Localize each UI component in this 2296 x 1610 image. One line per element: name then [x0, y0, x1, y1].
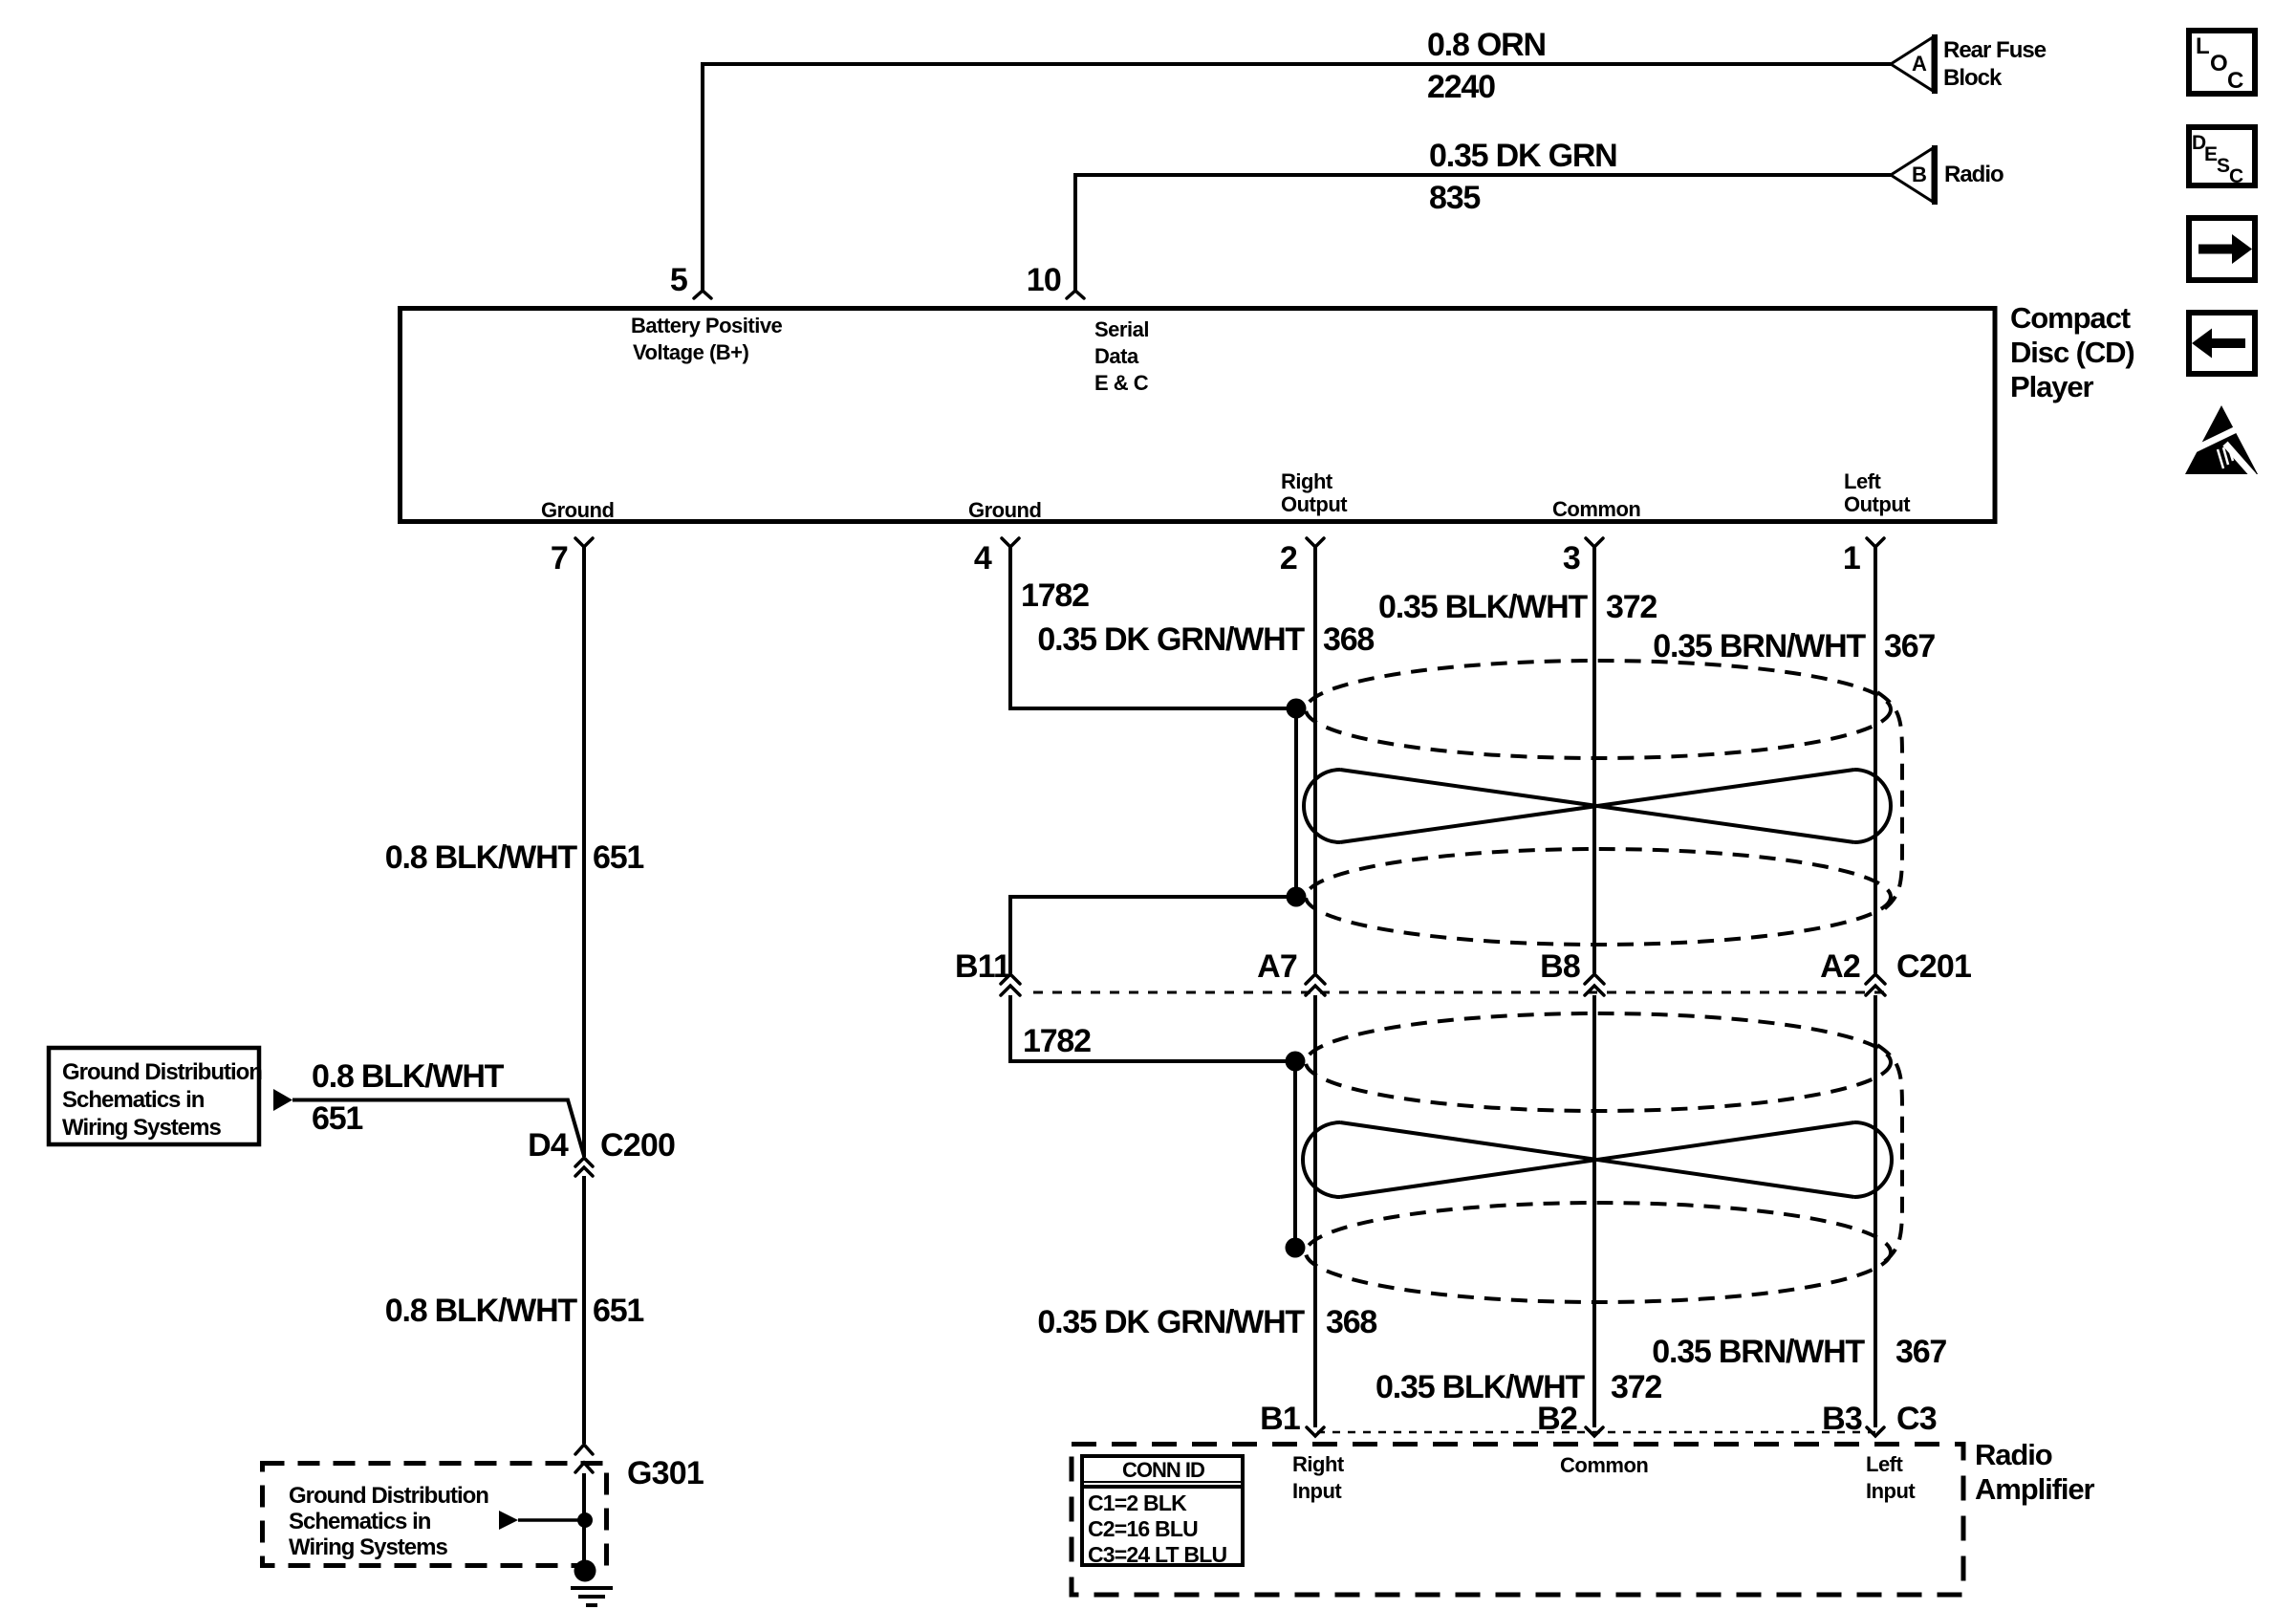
svg-text:Ground: Ground [541, 498, 614, 522]
svg-text:Radio: Radio [1944, 162, 2004, 187]
svg-text:Wiring Systems: Wiring Systems [289, 1534, 447, 1560]
svg-text:Output: Output [1844, 492, 1911, 516]
svg-text:B2: B2 [1537, 1401, 1577, 1437]
svg-text:0.35 BRN/WHT: 0.35 BRN/WHT [1653, 628, 1866, 664]
svg-text:Radio: Radio [1975, 1438, 2052, 1471]
svg-text:0.35 DK GRN/WHT: 0.35 DK GRN/WHT [1037, 1304, 1305, 1340]
svg-text:C3: C3 [1896, 1401, 1937, 1437]
svg-text:0.35 BRN/WHT: 0.35 BRN/WHT [1652, 1334, 1865, 1370]
svg-text:Data: Data [1094, 344, 1139, 368]
svg-text:Right: Right [1281, 469, 1333, 493]
svg-text:CONN ID: CONN ID [1122, 1458, 1204, 1482]
svg-text:Compact: Compact [2010, 301, 2131, 335]
svg-text:0.35 DK GRN: 0.35 DK GRN [1429, 138, 1617, 174]
svg-text:0.8 ORN: 0.8 ORN [1427, 27, 1546, 63]
svg-text:A: A [1912, 52, 1927, 76]
svg-text:Schematics in: Schematics in [62, 1087, 205, 1113]
svg-text:B11: B11 [955, 948, 1010, 985]
svg-text:G301: G301 [627, 1455, 704, 1491]
svg-text:O: O [2210, 51, 2227, 76]
svg-text:5: 5 [670, 262, 687, 298]
svg-text:Ground: Ground [968, 498, 1041, 522]
svg-text:Right: Right [1292, 1452, 1345, 1476]
svg-text:Wiring Systems: Wiring Systems [62, 1115, 221, 1141]
svg-text:2: 2 [1280, 540, 1297, 577]
svg-text:10: 10 [1027, 262, 1061, 298]
svg-text:368: 368 [1326, 1304, 1376, 1340]
svg-text:1: 1 [1843, 540, 1860, 577]
svg-text:B: B [1912, 163, 1926, 186]
svg-text:B3: B3 [1822, 1401, 1862, 1437]
svg-text:Input: Input [1292, 1479, 1342, 1503]
svg-text:1782: 1782 [1023, 1023, 1091, 1059]
svg-text:3: 3 [1563, 540, 1580, 577]
svg-text:Ground Distribution: Ground Distribution [289, 1483, 488, 1509]
svg-text:Output: Output [1281, 492, 1348, 516]
svg-text:C: C [2227, 68, 2243, 94]
svg-text:1782: 1782 [1021, 577, 1089, 614]
svg-text:0.8 BLK/WHT: 0.8 BLK/WHT [312, 1058, 505, 1095]
svg-text:Voltage (B+): Voltage (B+) [633, 340, 749, 364]
svg-text:Left: Left [1844, 469, 1882, 493]
svg-text:A2: A2 [1820, 948, 1860, 985]
svg-text:Disc (CD): Disc (CD) [2010, 336, 2134, 369]
svg-text:651: 651 [593, 1293, 643, 1329]
svg-text:D4: D4 [528, 1127, 569, 1164]
svg-text:0.8 BLK/WHT: 0.8 BLK/WHT [385, 1293, 578, 1329]
svg-text:835: 835 [1429, 180, 1480, 216]
svg-text:4: 4 [974, 540, 992, 577]
svg-text:Serial: Serial [1094, 317, 1149, 341]
svg-text:367: 367 [1884, 628, 1935, 664]
svg-text:C3=24 LT BLU: C3=24 LT BLU [1088, 1542, 1226, 1567]
svg-text:C201: C201 [1896, 948, 1971, 985]
svg-text:Ground Distribution: Ground Distribution [62, 1059, 262, 1085]
svg-text:C200: C200 [600, 1127, 675, 1164]
svg-text:0.35 BLK/WHT: 0.35 BLK/WHT [1378, 589, 1588, 625]
svg-text:368: 368 [1323, 621, 1374, 658]
svg-text:Left: Left [1866, 1452, 1904, 1476]
svg-text:0.8 BLK/WHT: 0.8 BLK/WHT [385, 839, 578, 876]
svg-text:651: 651 [312, 1100, 362, 1137]
svg-text:Input: Input [1866, 1479, 1916, 1503]
svg-text:L: L [2196, 33, 2209, 59]
svg-text:Rear Fuse: Rear Fuse [1943, 37, 2047, 63]
svg-text:S: S [2217, 155, 2230, 177]
svg-text:Amplifier: Amplifier [1975, 1472, 2094, 1506]
svg-text:651: 651 [593, 839, 643, 876]
svg-text:Block: Block [1943, 65, 2003, 91]
svg-text:C2=16 BLU: C2=16 BLU [1088, 1516, 1198, 1541]
svg-text:E: E [2204, 143, 2218, 165]
svg-text:0.35 DK GRN/WHT: 0.35 DK GRN/WHT [1037, 621, 1305, 658]
svg-text:B1: B1 [1260, 1401, 1300, 1437]
svg-text:Common: Common [1560, 1453, 1648, 1477]
svg-text:C: C [2229, 165, 2243, 187]
svg-text:E & C: E & C [1094, 371, 1149, 395]
svg-text:Common: Common [1552, 497, 1640, 521]
svg-text:367: 367 [1895, 1334, 1946, 1370]
svg-text:Schematics in: Schematics in [289, 1509, 431, 1534]
svg-text:A7: A7 [1257, 948, 1297, 985]
svg-text:B8: B8 [1540, 948, 1580, 985]
svg-text:7: 7 [551, 540, 568, 577]
svg-text:C1=2 BLK: C1=2 BLK [1088, 1490, 1187, 1515]
svg-text:372: 372 [1606, 589, 1657, 625]
svg-text:Battery Positive: Battery Positive [631, 314, 783, 337]
svg-text:Player: Player [2010, 370, 2094, 403]
svg-text:372: 372 [1611, 1369, 1661, 1405]
svg-text:2240: 2240 [1427, 69, 1495, 105]
